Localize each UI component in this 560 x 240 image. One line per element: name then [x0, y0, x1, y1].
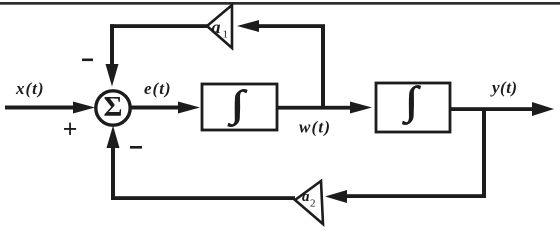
node w(t) junction [321, 27, 325, 107]
wire a1 output to summing junction top [106, 24, 208, 86]
sign minus (bottom feedback) [130, 146, 142, 149]
svg-text:Σ: Σ [104, 91, 123, 123]
svg-text:2: 2 [310, 198, 316, 210]
wire output tap down to bottom feedback [325, 109, 486, 203]
sign minus (top feedback) [82, 59, 93, 62]
svg-text:w(t): w(t) [299, 118, 331, 137]
svg-text:1: 1 [223, 29, 229, 41]
summing junction S1 [96, 91, 130, 125]
amplifier a1 [207, 5, 232, 48]
svg-text:+: + [63, 115, 78, 144]
svg-text:x(t): x(t) [15, 79, 45, 98]
svg-text:e(t): e(t) [144, 79, 172, 98]
wire a2 output to summing junction bottom [107, 126, 296, 201]
svg-text:a: a [302, 189, 310, 205]
integrator U1 [202, 83, 277, 130]
wire summing junction to integrator 1 [130, 102, 200, 114]
integrator U2 [376, 79, 450, 132]
wire integrator 1 to integrator 2 [278, 102, 372, 114]
svg-text:y(t): y(t) [490, 78, 518, 97]
wire integrator 2 to output [450, 102, 554, 116]
wire top feedback horizontal with arrow into a1 [237, 20, 325, 32]
wire input arrow into summing junction [5, 102, 95, 114]
svg-text:a: a [212, 17, 221, 37]
amplifier a2 [295, 181, 323, 224]
